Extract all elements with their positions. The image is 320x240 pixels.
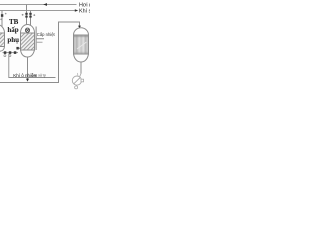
- right adsorber column: dome: [21, 25, 35, 33]
- heat arrow 1: [36, 38, 44, 40]
- drain mark 2: [9, 55, 11, 57]
- tank diagonal tube: [77, 42, 87, 49]
- pump circle: [72, 76, 81, 85]
- left column body hatched: [0, 33, 5, 47]
- manifold valve 2: [9, 51, 12, 54]
- svg-text:cần xử lý: cần xử lý: [32, 74, 46, 78]
- pipe: manifold down and across: [9, 54, 56, 78]
- right column bottom bowl: [21, 50, 35, 57]
- bottom main pipe with riser to tank: [0, 22, 80, 83]
- arrow down into tank: [78, 26, 81, 29]
- mark: [33, 14, 35, 16]
- valve pair on pipe A: [25, 13, 27, 15]
- tank bottom shadow band: [74, 52, 88, 54]
- svg-text:TB: TB: [9, 18, 19, 26]
- jacket pipe right of column: [35, 27, 37, 51]
- wire: clean gas line (Khi sach): [0, 10, 75, 12]
- valve manifold under columns: [3, 52, 19, 54]
- tank top shadow band: [74, 35, 88, 37]
- pump impeller diagonal: [74, 78, 80, 84]
- pipe: right column to gas line: [30, 11, 32, 26]
- mark: [5, 13, 7, 15]
- pipe: right column to steam line: [26, 5, 28, 26]
- manifold valve 1: [4, 51, 7, 54]
- mark: [22, 14, 24, 16]
- valve on left column pipe: [1, 14, 3, 17]
- svg-text:Cấp nhiệt: Cấp nhiệt: [37, 32, 56, 37]
- svg-text:phụ: phụ: [7, 36, 19, 44]
- mark: [0, 19, 2, 21]
- arrow left on steam line: [43, 3, 47, 6]
- right column body hatched: [21, 33, 35, 50]
- heat arrow 2: [36, 41, 42, 43]
- tank bottom bowl: [74, 54, 89, 62]
- svg-text:hấp: hấp: [7, 26, 18, 34]
- pump top stub: [76, 73, 79, 76]
- wire: steam header line (Hoi nuoc): [0, 4, 77, 6]
- tank body: [74, 35, 89, 54]
- pump inlet connector: [80, 74, 81, 77]
- pipe: left column top: [1, 11, 3, 28]
- distributor circle-x in dome: [25, 28, 29, 32]
- left adsorber column (cut at edge): dome: [0, 25, 5, 35]
- manifold valve 3: [14, 51, 16, 54]
- pipe: right column bottom outlet: [27, 57, 29, 79]
- svg-text:Khí s: Khí s: [79, 9, 90, 15]
- left nozzle on right column: [18, 47, 21, 49]
- drain mark 1: [4, 55, 6, 57]
- left column bottom bowl: [0, 47, 5, 52]
- arrow down onto bottom main: [26, 79, 29, 82]
- arrow right on gas line: [75, 9, 78, 12]
- tank outlet pipe: [80, 62, 82, 74]
- valve pair on pipe B: [29, 13, 31, 15]
- pump foot: [75, 86, 78, 89]
- pump side port: [81, 79, 84, 82]
- tank: dome: [74, 28, 89, 35]
